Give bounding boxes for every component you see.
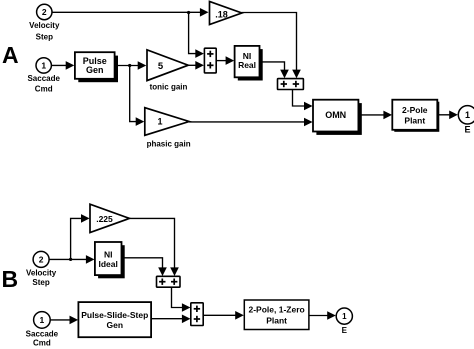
svg-text:.18: .18 — [215, 9, 228, 19]
svg-text:E: E — [342, 326, 348, 335]
svg-text:Real: Real — [238, 60, 256, 70]
diagram label B — [2, 266, 19, 292]
svg-text:Pulse-Slide-Step: Pulse-Slide-Step — [81, 310, 148, 320]
wire: OMN to 2-Pole Plant — [358, 111, 392, 120]
wire: Gen to sum4 bottom input — [151, 315, 190, 324]
junction on velocity wire — [187, 11, 190, 14]
junction on velocity wire (B) — [69, 258, 72, 261]
input port 1 Saccade Cmd (B) — [26, 312, 59, 348]
wire: junction down to sum1 top input — [189, 13, 204, 58]
wire: port2 to gain .18 — [52, 8, 209, 17]
svg-text:phasic gain: phasic gain — [147, 139, 191, 148]
gain block 1 phasic gain — [145, 108, 191, 149]
sum block sum2 — [278, 79, 304, 90]
sum block sum3 — [157, 276, 181, 287]
block Pulse-Slide-Step Gen — [78, 302, 151, 337]
svg-text:Cmd: Cmd — [33, 338, 51, 347]
wire: 2-Pole Plant to output port E (A) — [437, 111, 458, 120]
wire: port1 to Pulse-Slide-Step Gen — [50, 316, 78, 325]
svg-text:NI: NI — [104, 249, 113, 259]
svg-text:1: 1 — [41, 60, 46, 70]
junction on Pulse Gen output — [128, 64, 131, 67]
svg-text:2-Pole, 1-Zero: 2-Pole, 1-Zero — [248, 305, 304, 315]
wire: tonic gain to sum1 bottom input — [188, 61, 204, 70]
svg-text:E: E — [464, 125, 470, 135]
svg-text:A: A — [2, 42, 19, 68]
svg-text:1: 1 — [40, 315, 45, 325]
input port 1 Saccade Cmd (A) — [27, 58, 60, 94]
svg-text:Velocity: Velocity — [26, 269, 57, 278]
svg-text:tonic gain: tonic gain — [150, 83, 188, 92]
wire: sum2 to OMN upper input — [293, 90, 313, 111]
gain block 5 tonic gain — [147, 50, 188, 92]
svg-text:OMN: OMN — [325, 110, 346, 120]
output port 1 E (A) — [458, 106, 474, 135]
wire: sum3 to sum4 top input — [172, 287, 191, 312]
svg-text:Ideal: Ideal — [99, 259, 118, 269]
svg-text:Step: Step — [32, 278, 49, 287]
wire: sum1 to NI Real — [216, 56, 234, 65]
svg-text:Saccade: Saccade — [26, 329, 59, 338]
block Pulse Gen — [75, 52, 118, 82]
wire: Pulse Gen to tonic gain — [115, 61, 147, 70]
svg-text:Step: Step — [36, 33, 53, 42]
diagram label A — [2, 42, 19, 68]
wire: NI Ideal to sum3 left input — [122, 258, 167, 276]
svg-text:1: 1 — [342, 312, 347, 321]
wire: Plant to output port E (B) — [309, 311, 336, 320]
input port 2 Velocity Step (B) — [26, 251, 57, 287]
gain block .18 — [210, 2, 242, 25]
wire: gain .225 output to sum3 right input — [129, 218, 178, 276]
block NI Real — [235, 46, 263, 81]
gain block .225 — [90, 204, 129, 232]
wire: gain .18 output to sum2 right input — [242, 13, 301, 79]
block OMN — [313, 100, 362, 135]
svg-text:B: B — [2, 266, 19, 292]
wire: NI Real to sum2 left input — [260, 62, 289, 78]
svg-text:Plant: Plant — [266, 315, 287, 325]
wire: junction down to phasic gain — [130, 66, 145, 126]
wire: phasic gain to OMN lower input — [189, 118, 313, 127]
svg-text:Gen: Gen — [106, 320, 123, 330]
block 2-Pole Plant — [392, 100, 439, 132]
svg-text:Gen: Gen — [86, 65, 104, 75]
svg-text:1: 1 — [157, 116, 162, 126]
block 2-Pole 1-Zero Plant — [244, 300, 309, 330]
svg-text:Velocity: Velocity — [29, 21, 60, 30]
block NI Ideal — [95, 242, 125, 278]
svg-text:2: 2 — [42, 7, 47, 17]
wire: junction up to gain .225 — [71, 214, 90, 259]
svg-text:Plant: Plant — [404, 115, 425, 125]
svg-text:.225: .225 — [96, 214, 113, 224]
input port 2 Velocity Step (A) — [29, 4, 60, 41]
svg-text:1: 1 — [465, 110, 470, 120]
svg-text:2-Pole: 2-Pole — [402, 105, 428, 115]
svg-text:Cmd: Cmd — [35, 84, 53, 93]
svg-text:2: 2 — [39, 254, 44, 264]
sum block sum1 — [204, 48, 216, 73]
wire: port2 to NI Ideal — [49, 255, 94, 264]
output port 1 E (B) — [336, 308, 352, 335]
svg-text:Saccade: Saccade — [27, 74, 60, 83]
sum block sum4 — [191, 303, 203, 326]
svg-text:5: 5 — [158, 61, 164, 72]
wire: sum4 to 2-Pole 1-Zero Plant — [203, 311, 244, 320]
wire: port1 to Pulse Gen — [51, 61, 74, 70]
